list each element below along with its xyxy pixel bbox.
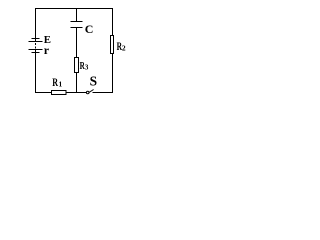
wire bottom left segment	[35, 92, 52, 94]
resistor R3 box	[75, 58, 79, 73]
battery r cell2 short plate	[32, 52, 40, 54]
wire top	[35, 8, 113, 10]
battery r cell2 long plate	[29, 49, 43, 51]
battery dashed link	[35, 43, 37, 49]
wire bottom right segment	[93, 92, 114, 94]
wire right upper	[112, 8, 114, 36]
svg-text:1: 1	[59, 80, 63, 89]
wire bottom middle segment	[66, 92, 86, 94]
battery E cell1 short plate	[32, 38, 40, 40]
svg-text:r: r	[44, 43, 50, 57]
wire right lower	[112, 54, 114, 94]
svg-text:C: C	[85, 22, 94, 36]
switch S blade	[89, 90, 94, 93]
wire left upper	[35, 8, 37, 42]
wire middle upper	[76, 8, 78, 22]
wire middle lower	[76, 73, 78, 93]
circuit schematic: battery E,r with capacitor C, resistors R1 R2 R3, switch S	[0, 0, 156, 103]
capacitor C top plate	[71, 21, 83, 23]
resistor R1 box	[52, 91, 67, 95]
svg-text:3: 3	[85, 63, 89, 71]
svg-text:2: 2	[122, 43, 126, 52]
wire left lower	[35, 50, 37, 94]
battery E cell1 long plate	[29, 41, 43, 43]
switch S contact circle	[86, 91, 89, 94]
capacitor C bottom plate	[71, 27, 83, 29]
resistor R2 box	[111, 36, 114, 54]
wire middle mid	[76, 28, 78, 58]
svg-text:S: S	[90, 74, 97, 89]
